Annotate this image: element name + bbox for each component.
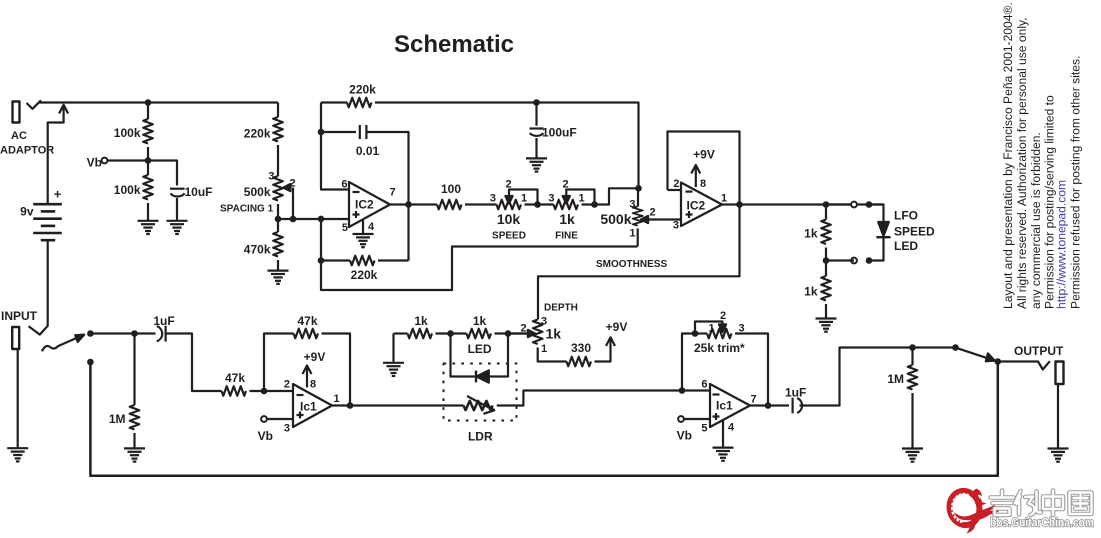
- svg-text:IC2: IC2: [687, 199, 706, 213]
- svg-text:1uF: 1uF: [785, 386, 806, 400]
- svg-text:any commercial use is forbidde: any commercial use is forbidden.: [1029, 132, 1043, 309]
- svg-text:1k: 1k: [804, 227, 818, 241]
- svg-text:Layout and presentation by Fra: Layout and presentation by Francisco Peñ…: [1001, 2, 1015, 309]
- svg-text:1: 1: [334, 393, 340, 405]
- svg-text:3: 3: [490, 193, 496, 205]
- svg-text:220k: 220k: [244, 127, 271, 141]
- svg-text:Schematic: Schematic: [394, 31, 514, 58]
- svg-text:2: 2: [650, 207, 656, 219]
- svg-text:5: 5: [342, 222, 348, 234]
- svg-text:1: 1: [721, 193, 727, 205]
- svg-text:2: 2: [673, 178, 679, 190]
- svg-text:3: 3: [284, 423, 290, 435]
- svg-text:3: 3: [738, 323, 744, 335]
- svg-text:+9V: +9V: [304, 350, 326, 364]
- svg-text:+9V: +9V: [693, 148, 715, 162]
- svg-text:SPEED: SPEED: [492, 231, 526, 242]
- svg-text:6: 6: [341, 179, 347, 191]
- svg-text:1k: 1k: [546, 326, 562, 342]
- svg-text:1: 1: [521, 193, 527, 205]
- svg-text:500k: 500k: [600, 211, 631, 227]
- svg-text:1uF: 1uF: [153, 314, 174, 328]
- svg-text:47k: 47k: [225, 371, 245, 385]
- svg-text:Permission refused for posting: Permission refused for posting from othe…: [1069, 56, 1083, 309]
- svg-text:2: 2: [505, 179, 511, 191]
- svg-text:All rights reserved. Authoriza: All rights reserved. Authorization for p…: [1015, 17, 1029, 309]
- svg-text:220k: 220k: [349, 83, 376, 97]
- svg-text:3: 3: [629, 199, 635, 211]
- svg-text:1M: 1M: [109, 412, 126, 426]
- svg-text:LED: LED: [894, 239, 918, 253]
- svg-text:0.01: 0.01: [356, 144, 380, 158]
- svg-text:2: 2: [520, 322, 526, 334]
- svg-text:4: 4: [728, 422, 735, 434]
- svg-text:Vb: Vb: [87, 156, 102, 170]
- svg-text:+: +: [54, 187, 62, 202]
- svg-text:Ic1: Ic1: [300, 400, 317, 414]
- svg-text:+9V: +9V: [606, 320, 628, 334]
- svg-text:SMOOTHNESS: SMOOTHNESS: [596, 259, 667, 270]
- svg-text:ADAPTOR: ADAPTOR: [0, 145, 54, 157]
- svg-text:SPEED: SPEED: [894, 225, 935, 239]
- svg-text:1: 1: [629, 228, 635, 240]
- svg-text:1M: 1M: [887, 372, 904, 386]
- svg-text:100k: 100k: [114, 126, 141, 140]
- svg-text:AC: AC: [11, 130, 27, 142]
- svg-text:220k: 220k: [351, 268, 378, 282]
- svg-text:2: 2: [562, 179, 568, 191]
- svg-text:http://www.tonepad.com: http://www.tonepad.com: [1055, 180, 1069, 309]
- svg-text:8: 8: [310, 379, 316, 391]
- svg-text:2: 2: [720, 310, 726, 322]
- svg-text:3: 3: [548, 193, 554, 205]
- svg-text:1k: 1k: [473, 314, 487, 328]
- svg-text:1: 1: [708, 323, 714, 335]
- svg-text:INPUT: INPUT: [1, 309, 38, 323]
- svg-text:Vb: Vb: [677, 429, 692, 443]
- svg-text:100uF: 100uF: [542, 126, 577, 140]
- svg-text:10uF: 10uF: [185, 185, 213, 199]
- svg-text:9v: 9v: [20, 205, 34, 219]
- svg-text:100: 100: [441, 182, 461, 196]
- svg-text:LFO: LFO: [894, 209, 918, 223]
- svg-text:1: 1: [541, 343, 547, 355]
- svg-text:SPACING 1: SPACING 1: [220, 204, 274, 215]
- svg-text:2: 2: [284, 379, 290, 391]
- svg-text:500k: 500k: [244, 185, 271, 199]
- svg-text:1: 1: [579, 193, 585, 205]
- svg-text:4: 4: [368, 221, 375, 233]
- svg-text:1k: 1k: [804, 285, 818, 299]
- svg-text:6: 6: [701, 379, 707, 391]
- svg-text:Ic1: Ic1: [716, 399, 733, 413]
- svg-text:3: 3: [673, 220, 679, 232]
- svg-text:7: 7: [390, 187, 396, 199]
- svg-text:LED: LED: [468, 342, 492, 356]
- svg-text:DEPTH: DEPTH: [544, 303, 578, 314]
- svg-text:5: 5: [701, 423, 707, 435]
- svg-text:47k: 47k: [297, 314, 317, 328]
- svg-text:1k: 1k: [559, 211, 575, 227]
- svg-text:10k: 10k: [497, 211, 521, 227]
- svg-text:OUTPUT: OUTPUT: [1014, 344, 1064, 358]
- svg-text:100k: 100k: [114, 183, 141, 197]
- svg-text:470k: 470k: [244, 243, 271, 257]
- svg-text:7: 7: [751, 394, 757, 406]
- svg-text:3: 3: [268, 171, 274, 183]
- svg-text:IC2: IC2: [355, 198, 374, 212]
- svg-text:25k trim*: 25k trim*: [694, 341, 745, 355]
- svg-text:bbs.GuitarChina.com: bbs.GuitarChina.com: [990, 516, 1094, 530]
- svg-text:Vb: Vb: [258, 429, 273, 443]
- svg-text:FINE: FINE: [555, 231, 578, 242]
- svg-text:8: 8: [700, 178, 706, 190]
- svg-text:2: 2: [290, 178, 296, 190]
- svg-text:LDR: LDR: [468, 430, 493, 444]
- svg-text:1k: 1k: [414, 314, 428, 328]
- svg-text:330: 330: [571, 341, 591, 355]
